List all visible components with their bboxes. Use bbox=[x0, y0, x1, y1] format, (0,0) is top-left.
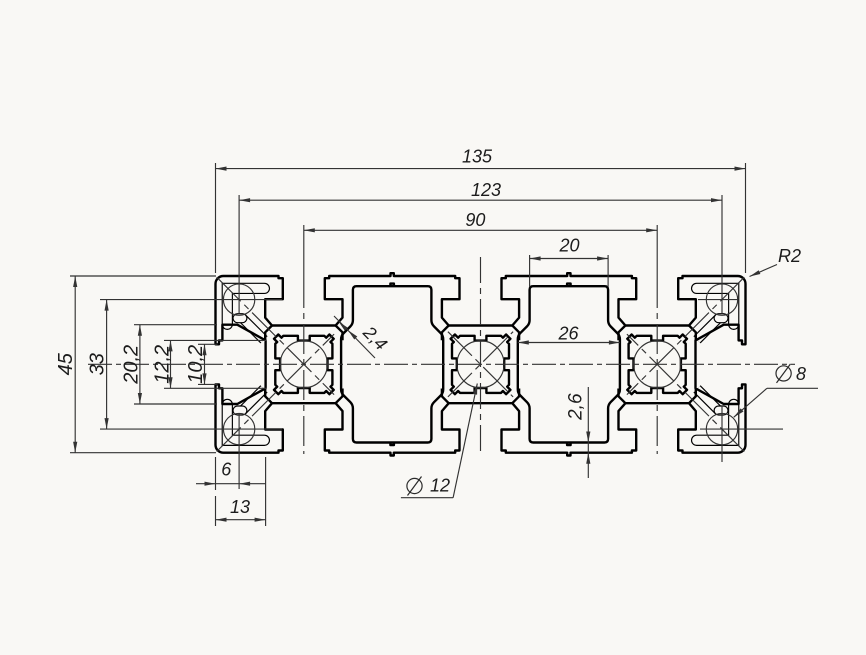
horizontal main centerline bbox=[88, 363, 795, 365]
svg-text:33: 33 bbox=[87, 353, 109, 375]
web gap channel bbox=[719, 313, 724, 323]
dim 90 bbox=[304, 229, 657, 231]
dim 20.2 bbox=[134, 324, 217, 326]
dim 45 bbox=[70, 275, 216, 277]
web gap channel bbox=[242, 318, 264, 340]
svg-text:20,2: 20,2 bbox=[120, 345, 142, 385]
dim 20 bbox=[529, 255, 531, 287]
web gap channel bbox=[719, 405, 724, 415]
dim 2.6 wall bbox=[587, 387, 589, 478]
screw-port C-slot bbox=[697, 404, 734, 440]
svg-text:45: 45 bbox=[55, 352, 77, 375]
svg-text:123: 123 bbox=[471, 180, 501, 200]
svg-text:8: 8 bbox=[796, 364, 806, 384]
svg-text:12: 12 bbox=[430, 476, 450, 496]
boss vertical centerlines bbox=[303, 225, 305, 278]
dim 135 bbox=[215, 163, 217, 273]
corner hole centerlines bbox=[238, 195, 240, 313]
web gap channel bbox=[242, 389, 264, 411]
label R2 bbox=[750, 265, 778, 277]
web gap channel bbox=[697, 318, 719, 340]
profile outer contour with T-slot mouths bbox=[215, 273, 745, 455]
bore circles d8 bbox=[223, 284, 254, 315]
dim 26 bbox=[518, 342, 620, 344]
label d8 bbox=[767, 387, 818, 389]
dim 33 bbox=[106, 300, 108, 430]
svg-text:20: 20 bbox=[558, 236, 579, 256]
dim 13 bbox=[265, 457, 267, 526]
cross slot chamber of boss 1 bbox=[274, 335, 334, 395]
dim 2.4 wall bbox=[334, 316, 375, 358]
boss 3 wall chamfers bbox=[619, 326, 626, 341]
svg-text:13: 13 bbox=[230, 497, 250, 517]
dim 10.2 bbox=[198, 343, 218, 345]
screw-port C-slot bbox=[697, 288, 734, 324]
svg-text:12,2: 12,2 bbox=[152, 345, 174, 384]
svg-text:2,6: 2,6 bbox=[566, 393, 587, 421]
screw-port C-slot bbox=[227, 288, 264, 324]
cross slot chamber of boss 3 bbox=[627, 335, 687, 395]
dim 12.2 bbox=[164, 339, 267, 341]
web gap channel bbox=[697, 389, 719, 411]
svg-text:10,2: 10,2 bbox=[185, 345, 207, 384]
cross slot chamber of boss 2 bbox=[451, 335, 511, 395]
svg-text:6: 6 bbox=[221, 460, 232, 480]
label d12 bbox=[401, 497, 453, 499]
boss 2 wall chamfers bbox=[442, 326, 449, 341]
bore circles d12 bbox=[280, 341, 327, 388]
dim 6 bbox=[215, 457, 217, 490]
big cavity right (module 2-3) bbox=[518, 284, 620, 446]
web gap channel bbox=[238, 313, 243, 323]
svg-text:R2: R2 bbox=[778, 246, 801, 266]
dim 123 bbox=[239, 199, 722, 201]
boss 1 wall chamfers bbox=[265, 326, 272, 341]
screw-port C-slot bbox=[227, 404, 264, 440]
web gap channel bbox=[238, 405, 243, 415]
svg-text:26: 26 bbox=[557, 324, 579, 344]
big cavity left (module 1-2) bbox=[341, 284, 443, 446]
svg-text:90: 90 bbox=[465, 210, 485, 230]
svg-text:135: 135 bbox=[462, 147, 493, 167]
web diagonal centerlines (corner to boss) bbox=[217, 277, 334, 394]
